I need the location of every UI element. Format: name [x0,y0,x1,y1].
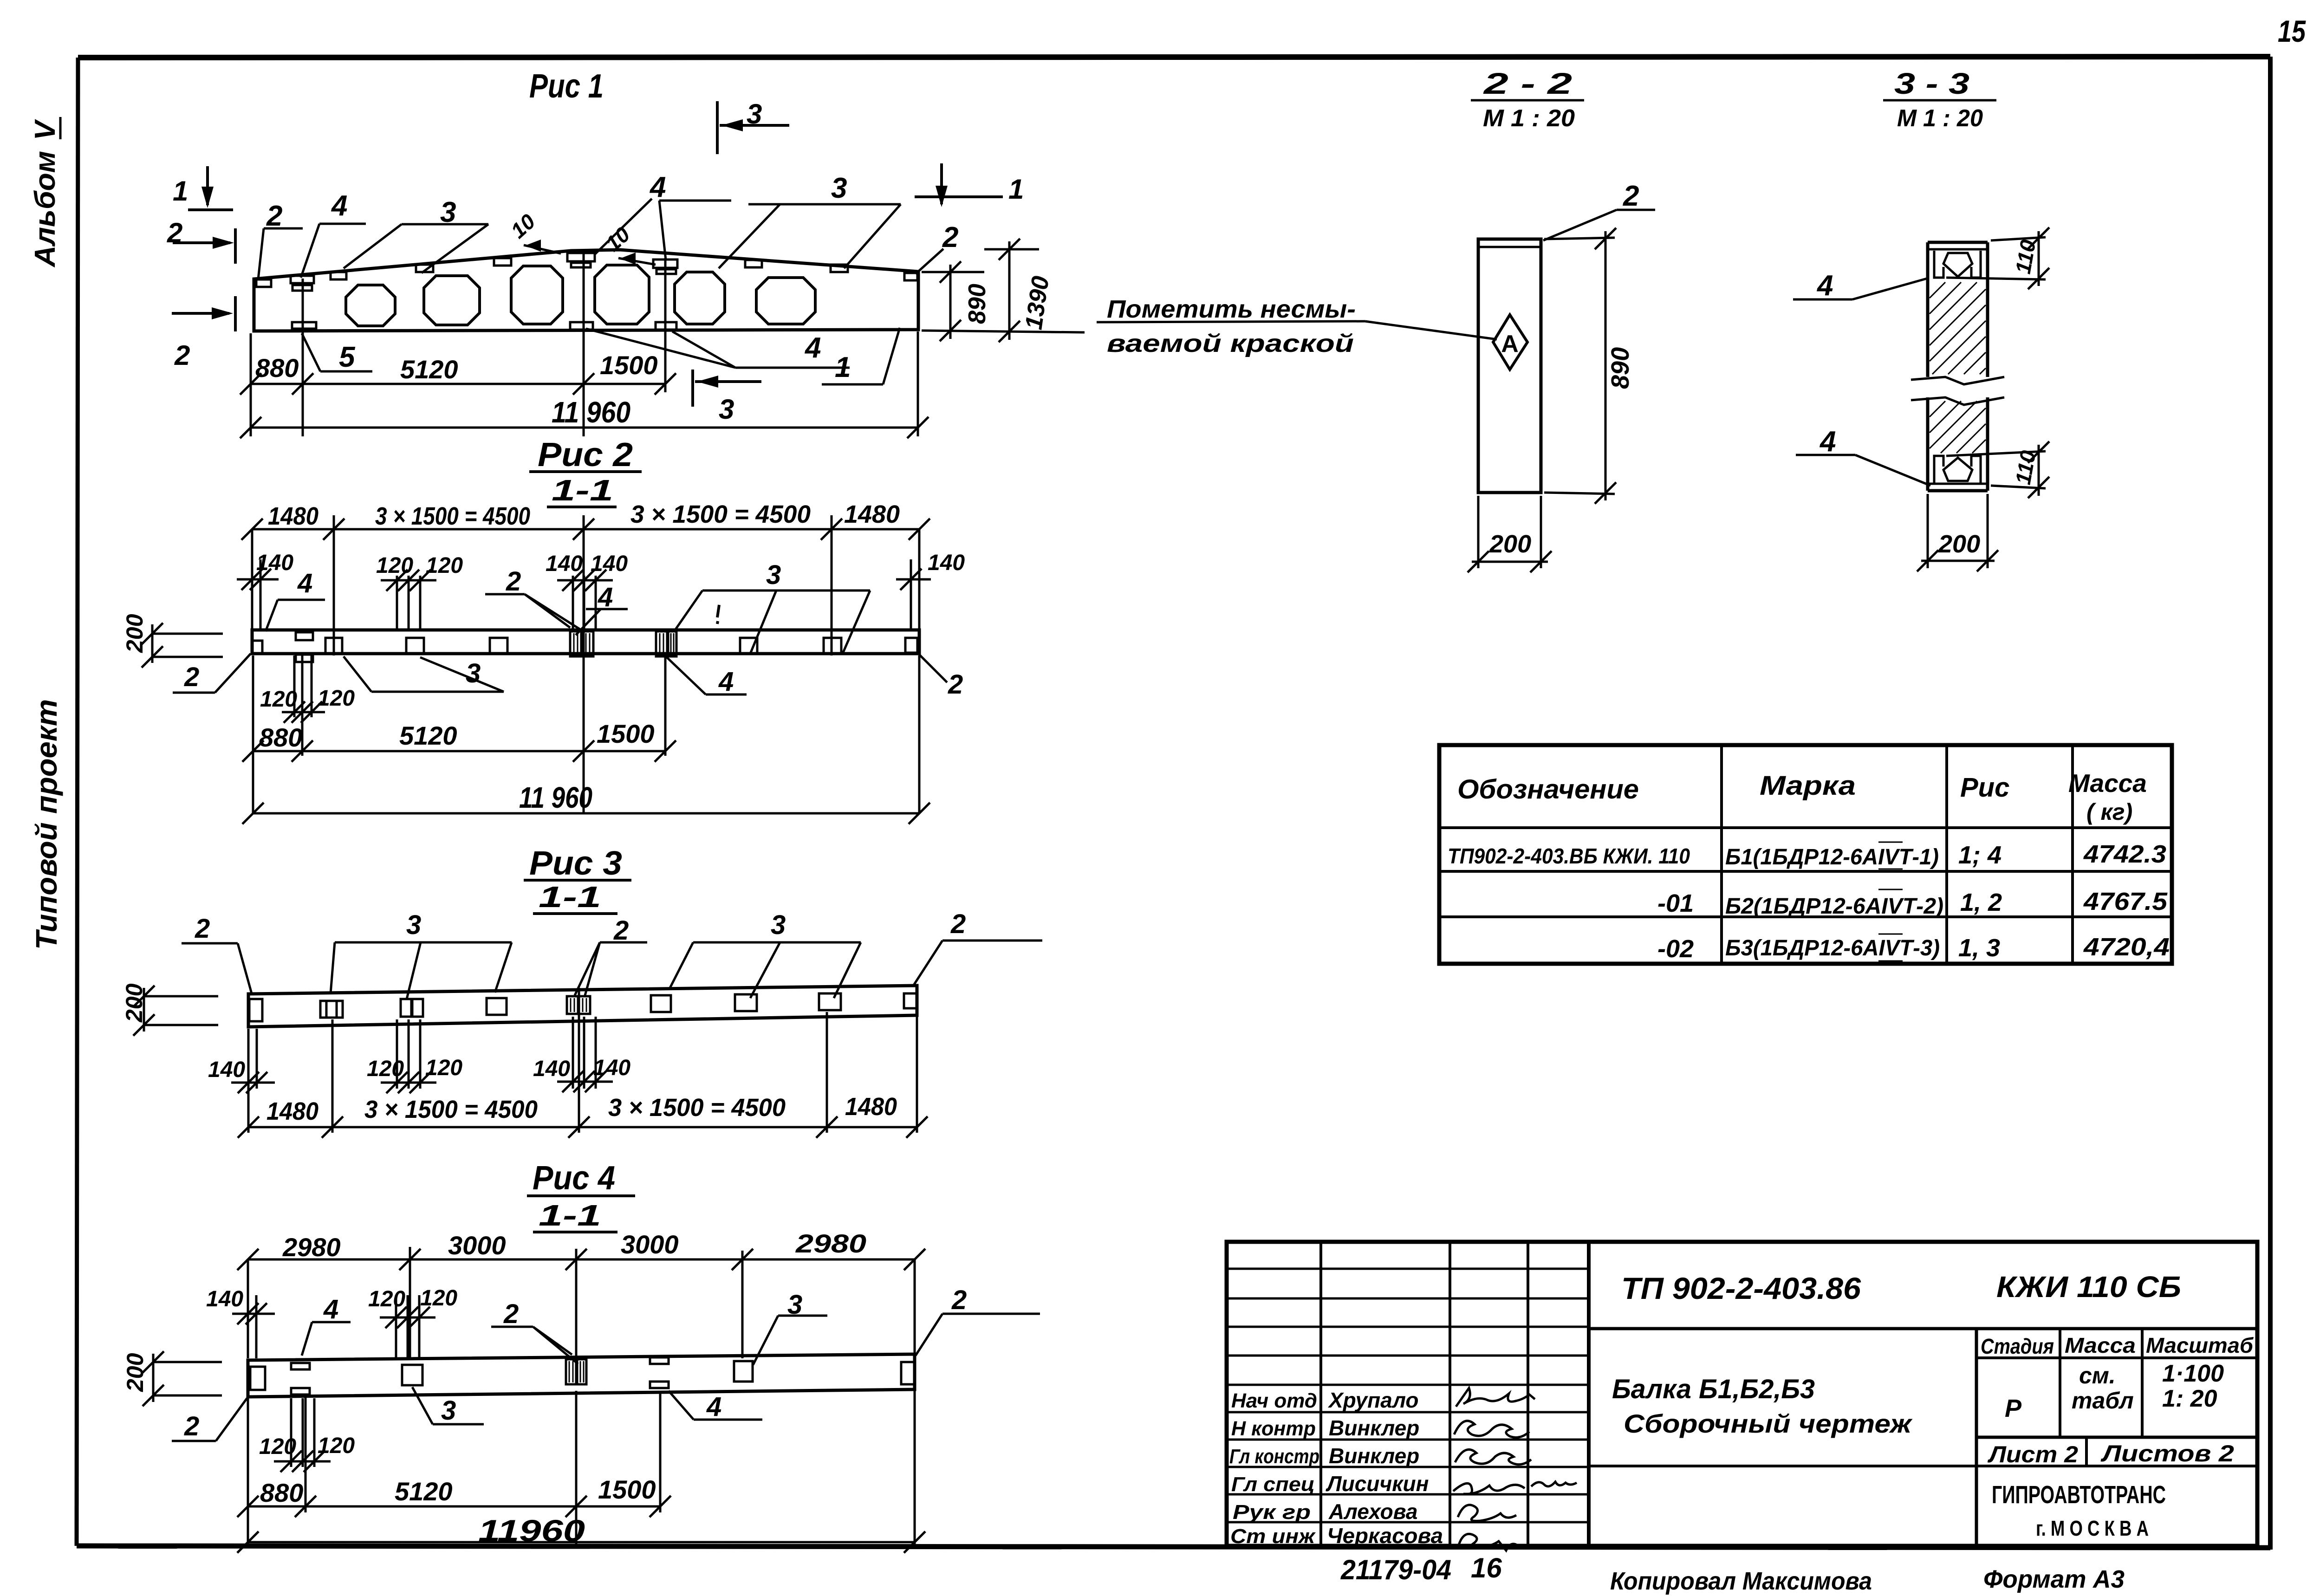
svg-text:4: 4 [598,582,613,612]
svg-text:Р: Р [2005,1395,2022,1422]
dimension 880 Рис1 [240,353,665,395]
dimension 5120 Рис4 [395,1477,587,1517]
hole H4 [595,265,649,324]
signature labels [1229,1389,1319,1548]
section marker 2 left upper [167,217,235,264]
slope mark 10 right [601,222,656,265]
dimension 1500 Рис4 [598,1475,671,1517]
svg-text:120: 120 [426,553,463,578]
dimension row 1480 / 4500 / 4500 / 1480 Рис3 [238,1093,928,1138]
svg-text:Масса: Масса [2068,769,2147,798]
label 2 Рис4 right leader [916,1285,1040,1356]
label 2 left with leader [258,200,303,279]
margin note Альбом V [29,117,61,268]
dimension 1500 Рис1 [600,350,676,395]
svg-text:3 - 3: 3 - 3 [1894,67,1969,100]
section 2-2 top plate line [1478,246,1541,248]
section marker 3 bottom [693,370,761,425]
svg-text:3 × 1500 = 4500: 3 × 1500 = 4500 [630,500,811,528]
svg-text:140: 140 [256,551,293,575]
svg-text:4720,4: 4720,4 [2083,933,2170,961]
svg-text:Рис: Рис [1960,772,2009,803]
embed plate top 7 (ridge, double) [653,260,677,268]
svg-text:2: 2 [951,1285,967,1315]
Рис2 lower extension lines [253,630,919,813]
svg-text:140: 140 [208,1058,245,1082]
svg-text:2: 2 [942,221,958,253]
svg-text:табл: табл [2072,1388,2134,1414]
section marker 3 top [717,98,789,154]
svg-text:140: 140 [546,551,583,576]
label 3 Рис3 left parallelogram [331,910,512,999]
embed plate bottom 1 [292,322,316,329]
svg-text:-02: -02 [1657,935,1694,963]
svg-text:Б3(1БДР12-6АIVТ-3): Б3(1БДР12-6АIVТ-3) [1725,936,1940,960]
dimension 11960 Рис1 [240,396,929,438]
section marker 1 top-left [173,166,233,210]
dimension 11960 Рис2 [242,781,930,824]
dimension 880 Рис4 [237,1478,660,1517]
svg-text:ваемой краской: ваемой краской [1107,330,1354,357]
svg-text:5: 5 [339,341,356,373]
label 4 bottom with leaders [586,329,850,368]
svg-text:ГИПРОАВТОТРАНС: ГИПРОАВТОТРАНС [1992,1481,2166,1509]
table header Масса (кг) [2068,769,2147,825]
svg-text:Хрупало: Хрупало [1327,1388,1419,1412]
svg-text:3: 3 [406,910,421,940]
embed plate top 8 [745,260,762,267]
svg-text:4: 4 [1819,426,1836,458]
label 2 Рис3 right leader [914,909,1042,985]
label 5 with leader [302,333,372,373]
Рис4 lower extensions [248,1391,915,1547]
Рис4 extension lines top [248,1247,915,1358]
dimension 120 120 top Рис2 [376,553,463,630]
extension lines Рис1 [251,250,918,436]
svg-text:2: 2 [184,662,199,692]
Рис4 beam plan bar [248,1354,915,1397]
label 4 Рис4 below leader [669,1391,762,1422]
svg-text:2980: 2980 [282,1233,341,1262]
section 3-3 hatching upper [1930,282,1986,374]
svg-text:Рис 2: Рис 2 [538,436,633,474]
svg-text:200: 200 [1489,530,1531,558]
label 4 Рис2 below leader [665,655,747,697]
embed plate bottom 2 [570,322,593,330]
label 4 top section 3-3 [1793,270,1927,302]
title block outer frame [1227,1242,2257,1546]
svg-text:3: 3 [466,658,481,688]
svg-text:4: 4 [297,568,312,598]
label 2 Рис2 right-below leader [919,655,963,700]
dimension 120 120 Рис3 [367,1019,462,1093]
small mark in Рис2 [717,605,719,624]
svg-text:Стадия: Стадия [1981,1334,2054,1358]
лист row [1976,1437,2257,1467]
svg-text:1; 4: 1; 4 [1958,841,2002,869]
svg-text:880: 880 [259,723,302,752]
dimension 200 section 2-2 [1468,496,1552,572]
svg-text:2: 2 [948,669,963,700]
svg-text:1-1: 1-1 [539,1199,601,1232]
svg-text:ТП902-2-403.ВБ КЖИ. 110: ТП902-2-403.ВБ КЖИ. 110 [1448,844,1690,868]
embed plate top 1 [256,279,271,287]
figure title Рис 4 [527,1160,635,1232]
svg-text:Алехова: Алехова [1328,1499,1418,1524]
section 3-3 break lines [1911,377,2004,405]
svg-text:Б1(1БДР12-6АIVТ-1): Б1(1БДР12-6АIVТ-1) [1725,845,1939,869]
svg-text:11960: 11960 [478,1513,585,1548]
svg-text:120: 120 [368,1287,405,1311]
svg-text:4: 4 [1816,270,1833,302]
Рис2 embed squares [252,631,917,662]
Рис4 top dimension row 2980/3000/3000/2980 [237,1229,925,1270]
svg-text:2980: 2980 [795,1229,866,1258]
svg-text:Альбом: Альбом [29,151,61,268]
стадия header texts [1981,1333,2254,1358]
svg-text:200: 200 [1938,530,1980,558]
svg-text:1480: 1480 [845,1093,897,1121]
svg-text:Рук гр: Рук гр [1233,1501,1311,1524]
svg-text:2: 2 [184,1411,199,1441]
svg-text:3 × 1500 = 4500: 3 × 1500 = 4500 [375,502,530,530]
svg-text:120: 120 [376,553,413,578]
label 2 Рис3 left leader [182,914,252,993]
hole H2 [424,276,480,325]
Рис2 top dimension row 1480 / 3x1500=4500 / 3x1500=4500 / 1480 [241,500,930,540]
svg-text:2: 2 [195,914,210,944]
section 3-3 bottom channel embed [1928,456,1988,484]
note Пометить несмываемой краской [1097,295,1497,357]
label 2 Рис2 top with leaders [485,566,580,629]
section marker 1 top-right [915,163,1024,207]
svg-text:120: 120 [318,686,355,711]
svg-text:1500: 1500 [598,1475,656,1504]
svg-text:ТП 902-2-403.86: ТП 902-2-403.86 [1621,1271,1861,1305]
Рис3 beam plan bar [248,986,917,1027]
dimension 880 Рис2 [242,723,665,762]
dimension 200 section 3-3 [1917,494,1998,571]
dimension 110 top section 3-3 [1946,227,2049,289]
figure title Рис 2 [529,436,642,507]
label 3 right parallelogram leader [719,172,901,268]
embed plate top 4 [416,265,433,272]
svg-text:Типовой проект: Типовой проект [30,699,63,950]
Рис2 beam plan bar [252,630,919,654]
dimension 200 Рис4 [122,1351,222,1406]
svg-text:4742.3: 4742.3 [2083,840,2166,868]
svg-text:5120: 5120 [399,721,457,750]
label 4 left with leader [301,190,366,278]
dimension 120 120 below Рис4 [259,1398,355,1472]
svg-text:Формат А3: Формат А3 [1983,1565,2125,1593]
table row 1 [1448,840,2166,869]
section marker 2 left lower [172,296,235,371]
svg-text:Ст инж: Ст инж [1230,1525,1316,1548]
svg-text:Пометить несмы-: Пометить несмы- [1107,295,1356,323]
embed plate top 9 [831,265,848,272]
svg-text:200: 200 [122,1353,148,1392]
svg-text:1, 2: 1, 2 [1960,889,2002,916]
svg-text:880: 880 [255,353,299,383]
dimension 120 120 below Рис2 [260,655,355,723]
embed plate top 10 [904,273,917,280]
svg-text:140: 140 [928,551,965,575]
table row 3 [1657,933,2170,963]
svg-text:1: 1 [835,351,851,383]
svg-text:890: 890 [964,284,991,324]
signature names [1326,1388,1443,1548]
mark diamond with А [1493,315,1527,370]
svg-text:Обозначение: Обозначение [1457,774,1639,804]
section title 2-2 [1471,67,1584,132]
svg-text:1: 20: 1: 20 [2162,1385,2217,1412]
label 2 Рис4 mid leaders [491,1299,578,1364]
hole H3 [511,266,563,324]
svg-text:Копировал Максимова: Копировал Максимова [1610,1567,1872,1595]
svg-text:890: 890 [1606,347,1634,389]
slope mark 10 left [506,209,561,253]
svg-text:2 - 2: 2 - 2 [1483,67,1572,100]
label 3 Рис4 below (big square) [412,1387,484,1426]
svg-text:Лисичкин: Лисичкин [1326,1472,1429,1496]
svg-text:Гл констр: Гл констр [1229,1445,1319,1468]
svg-text:V: V [29,119,61,140]
label 3 Рис3 right parallelogram [669,910,861,998]
label 2 for section 2-2 plate [1543,180,1655,240]
svg-text:2: 2 [1623,180,1639,212]
hole H6 [756,278,815,324]
dimension 200 Рис2 (bar width) [122,614,223,668]
svg-text:М 1 : 20: М 1 : 20 [1483,105,1575,132]
svg-text:Б2(1БДР12-6АIVТ-2): Б2(1БДР12-6АIVТ-2) [1725,894,1943,919]
svg-text:120: 120 [367,1057,404,1081]
svg-text:5120: 5120 [400,355,458,384]
svg-text:2: 2 [174,340,190,371]
label 4 ridge with leaders [595,171,731,260]
dimension 5120 Рис2 [399,721,594,762]
Рис3 bottom dim extensions [332,988,917,1133]
svg-text:120: 120 [420,1286,457,1311]
svg-text:Балка Б1,Б2,Б3: Балка Б1,Б2,Б3 [1612,1374,1815,1404]
dimension 11960 Рис4 [237,1513,925,1553]
svg-text:1480: 1480 [844,500,900,528]
figure title Рис 3 [524,845,631,914]
svg-text:4: 4 [331,190,347,222]
svg-text:4: 4 [804,332,821,364]
svg-text:А: А [1501,331,1519,357]
svg-text:3000: 3000 [448,1231,506,1260]
svg-text:2: 2 [613,915,629,946]
svg-text:3000: 3000 [621,1230,679,1259]
svg-text:200: 200 [121,983,147,1023]
roman numeral IV bars in marka cells [1878,842,1903,961]
embed plate top 2 (double) [291,276,314,283]
svg-text:1-1: 1-1 [539,880,601,914]
svg-text:140: 140 [533,1057,570,1081]
title block left columns [1321,1242,1589,1546]
svg-text:3: 3 [766,560,781,590]
label 1 bottom-right with leader [822,328,900,384]
signatures scribbles [1453,1388,1577,1551]
label 4 Рис4 leader [302,1294,351,1356]
label 2 Рис2 left-below leader [173,654,251,693]
svg-text:140: 140 [593,1056,630,1080]
embed plate top 5 [494,258,511,266]
svg-text:140: 140 [591,551,628,576]
Рис2 extension lines top [252,515,919,655]
svg-text:120: 120 [318,1434,355,1458]
svg-text:Масса: Масса [2065,1333,2136,1357]
doc name Балка Б1,Б2,Б3 [1612,1374,1913,1438]
label 2 Рис4 left-below leader [172,1398,247,1441]
title block left rows [1227,1269,1589,1522]
svg-text:1480: 1480 [268,502,318,530]
svg-text:1: 1 [173,175,188,207]
table row 2 [1657,888,2168,919]
specification table grid [1439,745,2172,964]
svg-text:Винклер: Винклер [1329,1416,1419,1440]
title block big cells divider [1589,1329,2257,1546]
svg-text:120: 120 [260,687,297,712]
svg-text:120: 120 [425,1056,462,1080]
svg-text:2: 2 [503,1299,519,1329]
svg-text:15: 15 [2278,14,2306,48]
hole H1 [346,285,395,326]
label 2 Рис3 mid leaders [575,915,647,995]
svg-text:880: 880 [260,1478,303,1507]
svg-text:1: 1 [1008,174,1024,205]
svg-text:3 × 1500 = 4500: 3 × 1500 = 4500 [364,1096,538,1123]
label 4 Рис2 top-left leader [266,568,325,631]
svg-text:1500: 1500 [597,719,655,748]
svg-text:1·100: 1·100 [2162,1360,2224,1387]
svg-text:Лист 2: Лист 2 [1988,1441,2078,1467]
label 3 Рис4 parallelogram [753,1290,827,1365]
svg-text:г. М О С К В А: г. М О С К В А [2036,1516,2149,1540]
beam Б1 elevation outline [254,250,918,331]
label 3 Рис2 top parallelogram [674,560,870,655]
svg-text:Н контр: Н контр [1231,1417,1316,1440]
стадия values [2005,1360,2224,1422]
dimension 200 Рис3 [121,983,218,1036]
dimension 140 Рис4 [206,1287,275,1358]
section 3-3 column lower part [1928,397,1988,491]
svg-text:1-1: 1-1 [552,474,613,507]
svg-text:3: 3 [831,172,847,204]
dimension 5120 Рис1 [400,355,594,395]
svg-text:11 960: 11 960 [519,781,592,814]
svg-text:3 × 1500 = 4500: 3 × 1500 = 4500 [608,1094,786,1122]
svg-text:16: 16 [1471,1552,1502,1583]
Рис4 embed squares [250,1357,915,1395]
section 3-3 hatching lower [1930,401,1986,453]
svg-text:4: 4 [323,1294,338,1324]
svg-text:2: 2 [506,566,521,597]
svg-text:1, 3: 1, 3 [1958,934,2000,962]
svg-text:Сборочный чертеж: Сборочный чертеж [1624,1409,1913,1438]
svg-text:Винклер: Винклер [1329,1444,1419,1468]
svg-text:21179-04: 21179-04 [1340,1554,1451,1585]
svg-text:Черкасова: Черкасова [1327,1524,1443,1548]
стадия blocks grid [1976,1329,2257,1437]
label 3 left parallelogram leader [344,196,488,273]
svg-text:КЖИ 110 СБ: КЖИ 110 СБ [1996,1270,2181,1304]
label 4 Рис2 mid leader [576,582,628,635]
section 2-2 column body [1478,239,1541,493]
embed plate bottom 3 [656,322,676,330]
dimension 140 left Рис2 [237,551,293,630]
Рис3 embed squares [249,993,917,1021]
embed plate top 6 (ridge, double) [567,253,595,261]
embed plate top 3 [331,272,346,279]
dimension 890 (end height) [922,261,1085,341]
dimension 1500 Рис2 [597,719,676,762]
svg-text:140: 140 [206,1287,243,1311]
dimension 120 120 Рис4 top [368,1286,457,1358]
svg-text:Рис 4: Рис 4 [533,1160,615,1197]
svg-text:5120: 5120 [395,1477,453,1506]
label 2 right with leader [916,221,958,274]
label 3 Рис2 below leaders [344,656,504,692]
svg-text:3: 3 [441,1395,456,1426]
svg-text:Масштаб: Масштаб [2146,1333,2254,1357]
dimension 890 section 2-2 [1544,228,1634,504]
section 3-3 column upper part [1928,242,1988,377]
dimension 1390 (ridge height) [984,239,1054,342]
dimension 140 140 mid Рис2 [546,551,628,630]
svg-text:Рис 1: Рис 1 [529,68,604,105]
section title 3-3 [1883,67,1996,132]
dimension 140 left Рис3 [208,1029,275,1133]
hole H5 [675,272,725,324]
svg-text:Рис 3: Рис 3 [529,845,622,882]
svg-text:Нач отд: Нач отд [1231,1389,1317,1412]
svg-text:Листов 2: Листов 2 [2100,1440,2234,1466]
dimension 110 bottom section 3-3 [1946,441,2049,498]
svg-text:Марка: Марка [1760,771,1856,801]
svg-text:3: 3 [719,394,734,425]
svg-text:1480: 1480 [266,1097,318,1125]
dimension 140 right Рис2 [896,551,965,630]
svg-text:4: 4 [706,1392,721,1422]
svg-text:2: 2 [950,909,966,939]
svg-text:4767.5: 4767.5 [2083,888,2168,915]
svg-text:200: 200 [122,614,148,653]
svg-text:120: 120 [259,1434,296,1459]
svg-text:-01: -01 [1657,889,1694,917]
svg-text:Гл спец: Гл спец [1231,1473,1315,1496]
svg-text:М 1 : 20: М 1 : 20 [1897,105,1983,132]
svg-text:11 960: 11 960 [552,396,630,429]
svg-text:см.: см. [2079,1362,2116,1388]
section 3-3 top channel embed [1928,249,1988,278]
svg-text:1500: 1500 [600,350,658,380]
svg-text:3: 3 [771,910,786,940]
svg-text:4: 4 [718,667,734,697]
label 4 bottom section 3-3 [1796,426,1930,486]
svg-text:( кг): ( кг) [2086,799,2132,825]
dimension 140 140 Рис3 [533,1017,630,1092]
